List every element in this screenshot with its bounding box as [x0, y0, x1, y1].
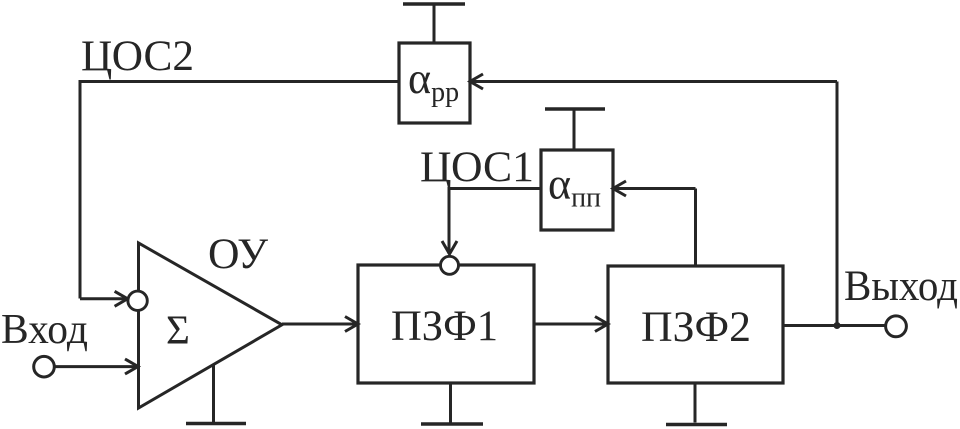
summing input circle on triangle edge	[128, 291, 147, 310]
input terminal circle	[34, 356, 55, 377]
wire: COC1 vertical down with arrow to PZF1 top circle	[442, 187, 457, 254]
output terminal circle	[886, 316, 907, 337]
wire: COC2 vertical down	[79, 80, 82, 299]
wire: COC1 from App2 left	[449, 187, 541, 190]
wire: triangle output to PZF1	[282, 317, 358, 332]
block PZF2	[608, 266, 783, 383]
op-amp summing triangle	[139, 243, 283, 408]
wire: top feedback into App right side	[470, 74, 837, 89]
wire: COC2 horizontal from App left	[80, 80, 399, 83]
wire: PZF2 to output terminal	[783, 324, 886, 327]
svg-text:Вход: Вход	[1, 307, 88, 353]
svg-text:ЦОС1: ЦОС1	[420, 144, 534, 191]
ground G2 above block App2	[545, 109, 605, 150]
svg-text:ОУ: ОУ	[208, 231, 269, 278]
ground G3 below triangle	[186, 364, 246, 424]
svg-text:ПЗФ1: ПЗФ1	[391, 303, 498, 350]
svg-text:Σ: Σ	[166, 307, 190, 353]
block App (alpha-pp)	[399, 43, 470, 123]
ground G1 above block App	[403, 4, 465, 43]
block App2 (alpha-pp lower)	[541, 150, 613, 230]
svg-text:ПЗФ2: ПЗФ2	[641, 304, 751, 351]
ground G4 below PZF1	[421, 383, 483, 424]
wire: into App2 right side	[613, 181, 696, 196]
ground G5 below PZF2	[666, 383, 727, 425]
wire: COC2 into summing input	[80, 291, 128, 306]
wire: input to triangle	[54, 359, 138, 374]
node: output junction dot	[834, 322, 841, 329]
block PZF1	[358, 265, 534, 383]
circle on PZF1 top edge	[441, 256, 459, 274]
svg-text:ЦОС2: ЦОС2	[81, 33, 194, 80]
wire: PZF1 to PZF2	[534, 317, 608, 332]
wire: from PZF2 top up	[694, 189, 697, 267]
wire: feedback vertical from output node up	[836, 82, 839, 326]
svg-text:Выход: Выход	[844, 263, 958, 310]
